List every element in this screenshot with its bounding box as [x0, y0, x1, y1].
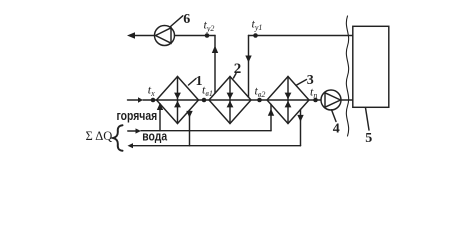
- svg-text:Σ ΔQ: Σ ΔQ: [86, 129, 113, 143]
- svg-text:вода: вода: [142, 129, 167, 143]
- svg-text:2: 2: [234, 61, 242, 77]
- svg-text:tв2: tв2: [255, 84, 266, 100]
- svg-text:tу1: tу1: [252, 17, 263, 33]
- svg-text:6: 6: [183, 12, 190, 27]
- svg-text:5: 5: [365, 131, 372, 146]
- svg-text:горячая: горячая: [117, 109, 158, 123]
- svg-text:tу2: tу2: [204, 18, 215, 34]
- svg-text:4: 4: [333, 122, 340, 137]
- svg-text:tх: tх: [148, 83, 155, 99]
- svg-text:tв1: tв1: [202, 83, 213, 99]
